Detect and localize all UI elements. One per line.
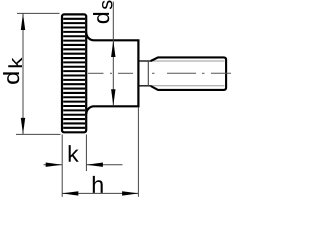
dk arrow down (21, 118, 25, 134)
dk label (3, 58, 22, 84)
k arrow left (86, 163, 103, 167)
knurl hatch lines on head (63, 19, 85, 128)
ds dimension line (112, 2, 114, 106)
k dimension line segments (44, 164, 123, 166)
threaded shank crest outline with chamfered end cap (151, 57, 226, 90)
k dimension extension lines (62, 134, 86, 196)
ds arrow down (111, 89, 115, 106)
h arrow right (122, 191, 139, 195)
dk dimension extension lines (16, 13, 61, 134)
dk arrow up (21, 13, 25, 30)
knurled head dk outline (62, 14, 86, 132)
ds arrow up (111, 40, 115, 57)
h arrow left (62, 191, 79, 195)
shank neck ds with fillets to head (86, 33, 138, 114)
thread root lines and thread runout boundary (140, 61, 225, 86)
h dimension line (62, 192, 138, 194)
centerline (dash-dot axis) (88, 72, 231, 74)
h dimension extension line (137, 108, 139, 197)
ds label (93, 1, 112, 24)
k label (69, 145, 79, 162)
dk dimension line (22, 13, 24, 134)
h label (93, 176, 103, 193)
k arrow right (46, 163, 63, 167)
